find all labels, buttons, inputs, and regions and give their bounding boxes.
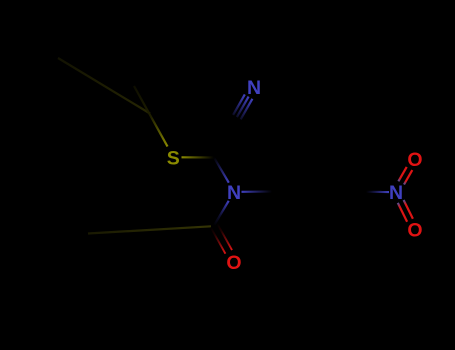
svg-text:N: N xyxy=(227,182,241,204)
svg-text:N: N xyxy=(389,182,403,204)
svg-text:N: N xyxy=(247,77,261,99)
svg-text:O: O xyxy=(407,149,422,171)
svg-text:O: O xyxy=(407,220,422,242)
svg-text:O: O xyxy=(226,252,241,274)
svg-text:S: S xyxy=(167,148,180,170)
